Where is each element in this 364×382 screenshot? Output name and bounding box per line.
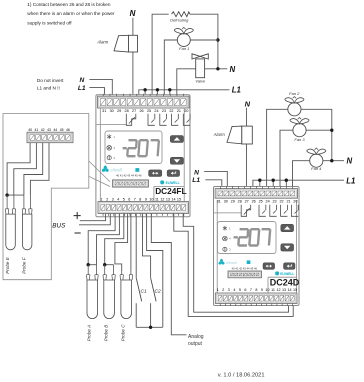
svg-text:Probe A: Probe A xyxy=(87,325,92,341)
DC24FL contact 25-24 xyxy=(148,114,155,126)
wire C common return xyxy=(147,214,163,328)
svg-text:27: 27 xyxy=(132,109,136,113)
DC24FL cyan logo xyxy=(160,180,164,184)
wire bus chain A xyxy=(174,214,293,317)
wire BUS plus xyxy=(80,214,106,221)
svg-text:41: 41 xyxy=(35,128,39,132)
junction probe A xyxy=(87,263,90,266)
wire fan1 left leg to terminal 22 xyxy=(164,40,177,96)
svg-text:30: 30 xyxy=(110,109,114,113)
DC24D button down xyxy=(281,244,294,251)
svg-text:24: 24 xyxy=(266,199,270,203)
svg-text:44: 44 xyxy=(53,128,57,132)
svg-text:ELIWELL: ELIWELL xyxy=(166,181,180,185)
DC24FL contact 23-22 xyxy=(160,114,167,126)
DC24D aux terminal strip xyxy=(228,271,262,278)
svg-text:L1: L1 xyxy=(192,177,200,184)
wire N top to alarm xyxy=(132,18,134,36)
inset box probes EF xyxy=(3,114,89,280)
svg-text:8: 8 xyxy=(139,197,141,201)
probe Probe F xyxy=(22,214,32,250)
svg-text:31: 31 xyxy=(102,109,106,113)
wire probe C right xyxy=(130,214,132,272)
junction L1-25 D xyxy=(258,179,261,182)
svg-text:13: 13 xyxy=(166,197,170,201)
svg-text:Do not invert: Do not invert xyxy=(37,78,64,83)
svg-text:29: 29 xyxy=(231,199,235,203)
wire probe F left xyxy=(24,143,43,195)
alarm A2 horn xyxy=(227,126,242,144)
wire BUS minus xyxy=(79,214,110,225)
DC24FL LCD digits -207 xyxy=(122,140,159,156)
probe Probe E xyxy=(6,214,16,250)
svg-text:21: 21 xyxy=(177,109,181,113)
DC24D button up xyxy=(281,224,294,231)
probe Probe C xyxy=(121,280,132,319)
wire probe B left xyxy=(105,214,124,265)
svg-text:DC24D: DC24D xyxy=(270,277,300,287)
svg-text:N: N xyxy=(245,100,251,109)
svg-text:Probe B: Probe B xyxy=(103,325,108,342)
svg-text:4: 4 xyxy=(233,288,235,292)
svg-text:8: 8 xyxy=(255,288,257,292)
junction probe E xyxy=(5,193,8,196)
probe E leads xyxy=(6,195,8,209)
svg-text:N: N xyxy=(80,77,85,84)
wire probe E left xyxy=(7,143,30,195)
svg-text:C2: C2 xyxy=(155,288,162,294)
svg-text:25: 25 xyxy=(259,199,263,203)
label BUS minus sign xyxy=(75,232,81,234)
probe F leads xyxy=(23,195,25,209)
svg-text:6: 6 xyxy=(128,197,130,201)
wire fan4 left leg xyxy=(293,161,311,189)
fan Fan 2 xyxy=(288,103,301,116)
wire C2 feed xyxy=(143,214,151,278)
inset terminal strip xyxy=(27,132,73,143)
svg-text:7: 7 xyxy=(250,288,252,292)
svg-text:Alarm: Alarm xyxy=(96,40,108,45)
junction fan3 N xyxy=(330,129,333,132)
stub L1 to terminal 21 xyxy=(169,90,171,96)
DC24FL LCD icons xyxy=(107,134,111,139)
svg-text:10: 10 xyxy=(265,288,269,292)
svg-text:3: 3 xyxy=(228,288,230,292)
DC24FL button enter xyxy=(167,170,180,177)
svg-text:C1: C1 xyxy=(141,288,148,294)
DC24FL eliwell logo xyxy=(104,165,107,169)
svg-text:Fan 3: Fan 3 xyxy=(294,137,305,142)
DC24D bottom terminal strip xyxy=(215,293,297,304)
wire fan3 left leg xyxy=(280,130,293,188)
svg-text:28: 28 xyxy=(238,199,242,203)
svg-text:25: 25 xyxy=(147,109,151,113)
svg-text:14: 14 xyxy=(288,288,292,292)
junction C2 common xyxy=(149,326,152,329)
svg-text:45: 45 xyxy=(60,128,64,132)
wire defrost right to N rail xyxy=(190,14,218,69)
resistor Defrosting xyxy=(172,12,190,17)
svg-text:11: 11 xyxy=(271,288,275,292)
svg-text:Fan 1: Fan 1 xyxy=(179,46,189,51)
DC24D cyan logo xyxy=(275,271,279,275)
valve Valve body xyxy=(196,59,205,78)
DC24FL nameplate xyxy=(154,185,184,187)
wire C common xyxy=(136,326,163,328)
wire fan2 right leg xyxy=(301,109,332,160)
svg-text:eliwell: eliwell xyxy=(111,167,122,172)
svg-text:22: 22 xyxy=(169,109,173,113)
svg-text:2: 2 xyxy=(222,288,224,292)
DC24FL top terminal strip xyxy=(98,96,190,108)
junction L1-23 xyxy=(156,88,159,91)
svg-text:31: 31 xyxy=(217,199,221,203)
svg-text:Probe F: Probe F xyxy=(21,256,26,274)
svg-text:output: output xyxy=(188,341,203,347)
svg-text:14: 14 xyxy=(171,197,175,201)
svg-text:27: 27 xyxy=(245,199,249,203)
DC24D top terminal strip xyxy=(215,189,298,199)
wire C2 bottom xyxy=(150,303,152,327)
device DC24FL body xyxy=(96,95,190,217)
svg-text:N: N xyxy=(230,65,236,74)
svg-text:10: 10 xyxy=(149,197,153,201)
wire N to alarm2 xyxy=(246,108,248,126)
wire valve right to N label xyxy=(205,68,228,70)
wire defrost left leg xyxy=(152,14,169,96)
switch C2 blade xyxy=(151,278,157,302)
svg-text:Probe E: Probe E xyxy=(5,256,10,274)
device DC24D body xyxy=(214,187,300,306)
junction probe B xyxy=(103,263,106,266)
svg-text:DC24FL: DC24FL xyxy=(155,186,186,196)
svg-text:42: 42 xyxy=(41,128,45,132)
wire N left feed to terminal 30 xyxy=(89,79,112,96)
DC24FL changeover contact 28-27 xyxy=(126,114,136,126)
svg-text:40 41 42 43 44 45 46: 40 41 42 43 44 45 46 xyxy=(116,173,142,177)
svg-text:6: 6 xyxy=(244,288,246,292)
svg-text:eliwell: eliwell xyxy=(226,260,237,265)
svg-text:21: 21 xyxy=(286,199,290,203)
svg-text:BUS: BUS xyxy=(52,222,66,229)
junction defrost/fan1 xyxy=(216,38,219,41)
svg-text:28: 28 xyxy=(125,109,129,113)
wire probe A right xyxy=(97,214,120,265)
svg-text:Analog: Analog xyxy=(188,334,204,340)
svg-text:29: 29 xyxy=(117,109,121,113)
DC24D contact 25-24 xyxy=(259,205,266,217)
svg-text:Defrosting: Defrosting xyxy=(170,18,189,23)
junction L1-21 xyxy=(168,88,171,91)
svg-text:12: 12 xyxy=(276,288,280,292)
probe Probe A xyxy=(87,280,98,319)
svg-text:N: N xyxy=(130,9,136,18)
wire alarm2 to terminal 27 xyxy=(246,144,248,189)
svg-text:26: 26 xyxy=(139,109,143,113)
probe C leads xyxy=(121,271,123,275)
svg-text:4: 4 xyxy=(117,197,119,201)
DC24FL button up xyxy=(170,136,183,143)
wire L1 left feed to terminal 31 xyxy=(89,88,104,97)
junction fan4 N xyxy=(330,159,333,162)
svg-text:12: 12 xyxy=(160,197,164,201)
wire fan2 left leg xyxy=(267,109,289,188)
svg-text:30: 30 xyxy=(224,199,228,203)
wire analog output xyxy=(151,214,186,335)
DC24D LCD digits -207 xyxy=(233,229,270,245)
svg-text:13: 13 xyxy=(282,288,286,292)
svg-text:5: 5 xyxy=(123,197,125,201)
svg-text:26: 26 xyxy=(252,199,256,203)
DC24D contact 20b xyxy=(291,205,298,217)
svg-text:L1 and N !!: L1 and N !! xyxy=(37,85,60,90)
svg-text:Valve: Valve xyxy=(195,79,206,84)
svg-text:L1: L1 xyxy=(78,85,86,92)
svg-text:ELIWELL: ELIWELL xyxy=(280,272,294,276)
wire fan1 right leg xyxy=(190,39,218,41)
svg-text:5: 5 xyxy=(239,288,241,292)
DC24D internal line xyxy=(214,212,242,214)
DC24D button set xyxy=(263,263,275,270)
stub L1-21 DC24D xyxy=(285,180,287,188)
DC24FL contact 20b xyxy=(183,114,190,126)
svg-text:1) Contact between 26 and 28 i: 1) Contact between 26 and 28 is broken xyxy=(27,2,111,7)
DC24FL internal line xyxy=(96,124,126,126)
wire probe A left xyxy=(88,214,115,265)
svg-text:46: 46 xyxy=(66,128,70,132)
wire fan3 right leg xyxy=(306,129,332,131)
jumper probe A xyxy=(88,264,96,266)
junction L1-25 xyxy=(143,88,146,91)
svg-text:40: 40 xyxy=(28,128,32,132)
svg-text:9: 9 xyxy=(261,288,263,292)
jumper probe E xyxy=(7,194,24,196)
svg-text:2: 2 xyxy=(106,197,108,201)
wire probe F right xyxy=(30,143,49,195)
svg-text:L1: L1 xyxy=(232,85,241,94)
wire C1 feed xyxy=(135,214,137,278)
svg-text:15: 15 xyxy=(177,197,181,201)
fan Fan 4 xyxy=(310,154,323,167)
svg-text:supply is switched off: supply is switched off xyxy=(27,20,72,25)
svg-text:20: 20 xyxy=(184,109,188,113)
wire L1 rail DC24D xyxy=(253,180,344,188)
DC24D LCD xyxy=(218,222,277,254)
label BUS plus sign xyxy=(74,215,81,217)
svg-text:22: 22 xyxy=(279,199,283,203)
DC24FL panel side edges xyxy=(99,108,101,201)
wire probe E right xyxy=(14,143,37,195)
DC24FL aux terminal strip xyxy=(113,180,149,187)
svg-text:43: 43 xyxy=(47,128,51,132)
DC24D button enter xyxy=(284,263,296,270)
probe B leads xyxy=(104,265,106,275)
DC24D eliwell logo xyxy=(220,259,223,263)
svg-text:20: 20 xyxy=(293,199,297,203)
DC24D changeover contact xyxy=(241,205,251,217)
DC24FL button down xyxy=(170,157,183,164)
svg-text:N: N xyxy=(194,169,199,176)
junction L1-23 D xyxy=(272,179,275,182)
svg-text:9: 9 xyxy=(145,197,147,201)
wire C1 bottom xyxy=(135,303,137,327)
DC24D nameplate xyxy=(268,276,297,278)
svg-text:40 41 42 43 44 45 46: 40 41 42 43 44 45 46 xyxy=(232,267,258,271)
svg-text:Fan 2: Fan 2 xyxy=(289,91,300,96)
switch C1 blade xyxy=(136,278,142,302)
DC24FL LCD xyxy=(105,131,162,164)
DC24FL button set xyxy=(149,170,162,177)
stub L1-23 DC24D xyxy=(272,180,274,188)
svg-text:L1: L1 xyxy=(346,176,355,185)
svg-text:1: 1 xyxy=(101,197,103,201)
svg-text:24: 24 xyxy=(154,109,158,113)
wire bus chain B xyxy=(183,214,288,313)
DC24FL bottom terminal strip xyxy=(98,202,189,214)
svg-text:15: 15 xyxy=(293,288,297,292)
jumper probe B xyxy=(105,264,114,266)
wire L1 rail DC24FL xyxy=(139,90,230,96)
DC24D panel side edges xyxy=(216,200,218,293)
junction L1-21 D xyxy=(285,179,288,182)
svg-text:Probe C: Probe C xyxy=(121,324,126,342)
wire fan4 right leg xyxy=(323,160,344,162)
alarm A2 box xyxy=(242,126,253,144)
stub L1 to terminal 23 xyxy=(156,90,158,96)
DC24D LCD icons xyxy=(223,226,227,231)
wire probe C left jog xyxy=(115,214,128,272)
DC24D contact 21-20 xyxy=(281,205,288,217)
svg-text:11: 11 xyxy=(155,197,159,201)
svg-text:Fan 4: Fan 4 xyxy=(311,166,322,171)
svg-text:v. 1.0 / 18.06.2021: v. 1.0 / 18.06.2021 xyxy=(218,373,265,379)
fan Fan 3 xyxy=(293,124,306,137)
svg-text:23: 23 xyxy=(273,199,277,203)
svg-text:3: 3 xyxy=(112,197,114,201)
wire L1 feed DC24D xyxy=(205,180,222,189)
svg-text:7: 7 xyxy=(134,197,136,201)
probe A leads xyxy=(87,265,89,275)
svg-text:23: 23 xyxy=(162,109,166,113)
callout line 2 xyxy=(89,176,110,186)
svg-text:1: 1 xyxy=(217,288,219,292)
svg-text:N: N xyxy=(347,157,353,166)
valve Valve bowtie xyxy=(192,54,200,59)
fan Fan 1 xyxy=(177,34,190,47)
junction valve N xyxy=(216,67,219,70)
wire alarm to terminal 27 xyxy=(132,52,134,96)
stub L1 to terminal 25 xyxy=(144,90,146,96)
wire N feed DC24D xyxy=(204,171,227,188)
callout line 1 xyxy=(89,161,110,182)
alarm A1 horn xyxy=(114,35,129,52)
alarm A1 box xyxy=(129,35,138,52)
svg-text:Alarm: Alarm xyxy=(213,132,225,137)
probe Probe B xyxy=(104,280,115,319)
DC24FL contact 21-20 xyxy=(172,114,179,126)
svg-text:when there is an alarm or when: when there is an alarm or when the power xyxy=(27,11,115,16)
DC24D contact 23-22 xyxy=(270,205,277,217)
wire valve left leg to terminal 20 xyxy=(177,69,196,96)
stub L1-25 DC24D xyxy=(259,180,261,188)
